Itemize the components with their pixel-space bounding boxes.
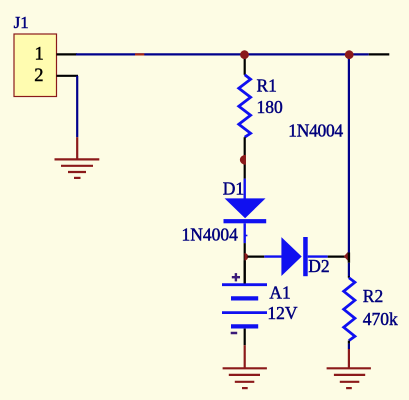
wire pin2 down [76, 76, 78, 137]
plus mark [232, 273, 240, 281]
wire D2 to R2 rail [328, 256, 346, 258]
half-dot junction R1/D1 [240, 155, 246, 165]
resistor R1 [239, 56, 251, 179]
svg-text:180: 180 [257, 97, 284, 117]
svg-text:2: 2 [34, 66, 43, 86]
wire junction to D2 [248, 256, 265, 258]
svg-text:470k: 470k [363, 309, 398, 329]
diode D1 [224, 179, 267, 284]
wire top rail [76, 53, 369, 55]
svg-text:1N4004: 1N4004 [288, 121, 343, 141]
svg-text:1N4004: 1N4004 [182, 225, 239, 245]
resistor R2 [344, 276, 355, 349]
pin 2 stub [57, 75, 79, 77]
svg-text:R2: R2 [363, 286, 383, 306]
svg-text:R1: R1 [257, 75, 277, 95]
svg-text:1: 1 [35, 45, 44, 65]
junction at R1 branch [240, 50, 249, 59]
svg-text:12V: 12V [267, 303, 298, 323]
black segment on R2 rail at junction [348, 253, 350, 263]
pin 1 stub [57, 53, 78, 55]
ground (J1) [55, 159, 100, 178]
ground lead (J1) [76, 137, 78, 159]
minus mark [231, 332, 238, 335]
connection cone at R2 rail [344, 252, 348, 261]
wire segment (red) on top rail [135, 53, 144, 55]
pin stub top right [369, 53, 390, 55]
ground (R2) [327, 368, 371, 388]
battery A1 [222, 285, 267, 327]
wire battery to ground [244, 329, 246, 346]
ground (battery) [223, 368, 267, 388]
battery pin top [244, 261, 246, 284]
wire R2 to ground [348, 349, 350, 368]
diode D2 [264, 237, 327, 276]
svg-text:J1: J1 [14, 13, 29, 32]
connector J1 [14, 34, 57, 97]
wire R2 rail down [348, 56, 350, 253]
svg-text:D2: D2 [308, 256, 329, 276]
junction at R2 branch [345, 50, 354, 59]
svg-text:D1: D1 [223, 178, 244, 198]
svg-text:A1: A1 [269, 283, 290, 303]
half-dot junction at D2 branch [245, 253, 249, 260]
